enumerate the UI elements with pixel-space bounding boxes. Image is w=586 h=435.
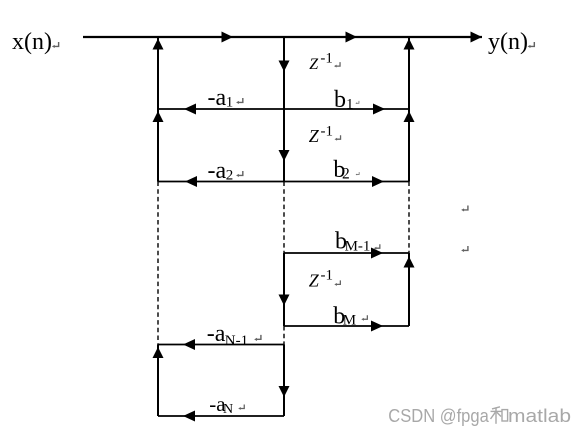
arrowhead up into row1 at left vertical (153, 111, 164, 122)
arrowhead down on middle vertical segment 2 (279, 150, 290, 161)
arrowhead up into top line at left vertical (153, 39, 164, 50)
wire: row 6 horizontal (-a N) (158, 415, 284, 417)
wire: right vertical segment (row2 up to row1) (408, 109, 410, 182)
coefficient label bM (333, 303, 356, 329)
paragraph mark after -aN-1 (254, 335, 261, 341)
svg-text:1: 1 (226, 95, 234, 111)
paragraph mark after bM-1 (374, 244, 380, 249)
svg-text:2: 2 (226, 168, 234, 184)
arrowhead on row3 pointing right (371, 248, 383, 259)
delay element label z^-1 (second) (309, 124, 333, 147)
wire: row 1 horizontal (-a1 / b1) (158, 108, 409, 110)
arrowhead on top line (second, pointing right) (346, 32, 358, 43)
wire: row 2 horizontal (-a2 / b2) (158, 181, 409, 183)
wire: top horizontal line x(n) to y(n) (83, 36, 482, 38)
paragraph mark after x(n) (52, 42, 59, 48)
svg-text:N-1: N-1 (225, 333, 248, 349)
svg-text:CSDN @fpga: CSDN @fpga (388, 405, 489, 426)
watermark CSDN @fpga和matlab (388, 405, 572, 427)
coefficient label b1 (334, 87, 354, 113)
arrowhead on row2 pointing right (372, 176, 384, 187)
svg-text:-a: -a (208, 85, 227, 111)
paragraph mark after -a1 (236, 98, 243, 104)
svg-text:N: N (223, 402, 233, 417)
arrowhead on row1 pointing right (373, 104, 385, 115)
paragraph mark after b2 (small) (356, 172, 360, 175)
svg-text:b: b (334, 87, 346, 113)
delay element label z^-1 (third) (309, 268, 333, 291)
wire: middle vertical segment (top line down to row1) (283, 37, 285, 109)
wire: middle vertical short dashed segment (row4 to row5) (283, 326, 285, 345)
svg-text:Z: Z (309, 271, 320, 291)
wire: left vertical segment (top line down to row1) (157, 37, 159, 109)
coefficient label -a1 (208, 85, 234, 111)
paragraph mark after first z^-1 (334, 62, 340, 67)
wire: middle vertical dashed segment (row2 to row3) (283, 182, 285, 254)
delay element label z^-1 (first) (309, 51, 333, 73)
paragraph mark after third z^-1 (334, 280, 340, 285)
svg-text:-a: -a (207, 321, 226, 347)
arrowhead up into row3 at right vertical (404, 257, 415, 268)
svg-text:M-1: M-1 (345, 238, 371, 254)
svg-text:matlab: matlab (508, 405, 571, 426)
paragraph mark after b1 (small) (355, 101, 359, 104)
svg-text:-1: -1 (321, 268, 334, 284)
wire: row 3 horizontal (b M-1) (284, 252, 409, 254)
wire: right vertical dashed segment (row2 to row3) (408, 182, 410, 254)
arrowhead down on middle vertical segment 4 (279, 386, 290, 397)
wire: middle vertical segment (row5 to row6) (283, 345, 285, 417)
svg-text:1: 1 (346, 97, 354, 113)
hand-drawn CJK glyph 和 in watermark (491, 407, 508, 424)
arrowhead on row6 pointing left (183, 411, 195, 422)
svg-text:x(n): x(n) (12, 29, 52, 55)
arrowhead up into top line at right vertical (404, 39, 415, 50)
paragraph mark after second z^-1 (335, 135, 341, 140)
wire: middle vertical segment (row3 to row4) (283, 253, 285, 326)
coefficient label bM-1 (335, 228, 370, 254)
paragraph mark after -aN (238, 404, 244, 409)
coefficient label -aN-1 (207, 321, 248, 349)
svg-text:2: 2 (342, 166, 350, 183)
coefficient label -aN (209, 392, 233, 417)
arrowhead on row5 pointing left (183, 339, 195, 350)
wire: row 4 horizontal (b M) (284, 325, 409, 327)
paragraph mark after y(n) (528, 42, 535, 48)
coefficient label b2 (333, 157, 349, 183)
arrowhead down on middle vertical segment 1 (279, 61, 290, 72)
svg-text:-1: -1 (320, 51, 333, 67)
svg-text:Z: Z (309, 126, 320, 146)
svg-text:M: M (343, 312, 356, 328)
wire: left vertical segment bottom (row6 up to row5) (157, 345, 159, 417)
arrowhead on row1 pointing left (184, 104, 196, 115)
wire: right vertical segment (row4 up to row3) (408, 253, 410, 326)
svg-text:-1: -1 (321, 124, 334, 140)
svg-text:y(n): y(n) (488, 29, 528, 55)
arrowhead on row4 pointing right (371, 321, 383, 332)
coefficient label -a2 (208, 158, 234, 184)
arrowhead up into row5 at left vertical (153, 347, 164, 358)
svg-text:Z: Z (309, 56, 319, 73)
arrowhead down on middle vertical segment 3 (279, 295, 290, 306)
wire: row 5 horizontal (-a N-1) (158, 344, 284, 346)
arrowhead at end of top line into y(n) (471, 32, 483, 43)
standalone paragraph mark (lower, right side) (461, 246, 468, 252)
wire: middle vertical segment (row1 to row2) (283, 109, 285, 182)
wire: right vertical segment (row1 up to top line) (408, 37, 410, 109)
arrowhead up into row1 at right vertical (404, 111, 415, 122)
wire: left vertical dashed segment (row2 to row5) (157, 182, 159, 345)
paragraph mark after bM (361, 315, 367, 320)
wire: left vertical segment (row1 down to row2) (157, 109, 159, 182)
arrowhead on top line (first, pointing right) (222, 32, 234, 43)
arrowhead on row2 pointing left (185, 176, 197, 187)
standalone paragraph mark (upper, right side) (461, 205, 468, 211)
svg-text:-a: -a (208, 158, 227, 184)
paragraph mark after -a2 (236, 171, 243, 177)
